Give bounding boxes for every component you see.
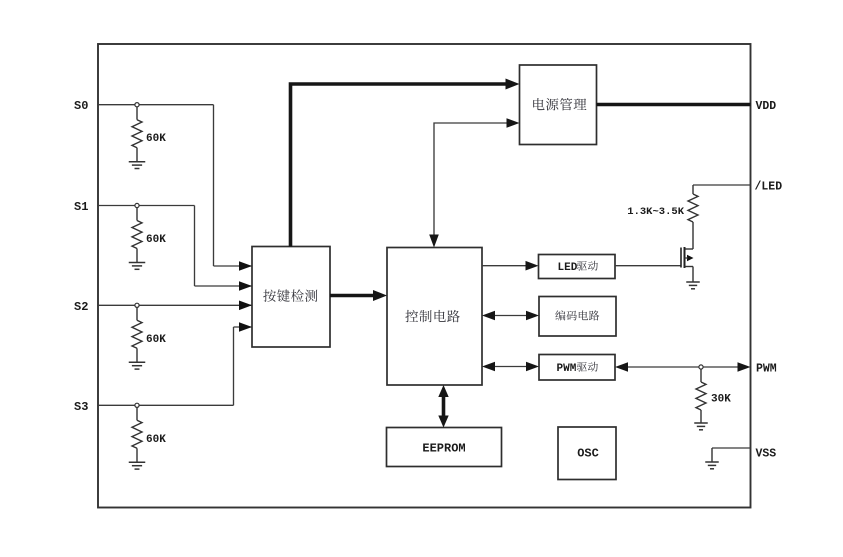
svg-text:PWM: PWM (756, 363, 777, 376)
svg-text:/LED: /LED (755, 181, 783, 194)
svg-text:S2: S2 (74, 300, 88, 314)
svg-text:60K: 60K (146, 434, 166, 446)
svg-text:S0: S0 (74, 99, 88, 113)
svg-text:30K: 30K (711, 394, 731, 406)
svg-text:60K: 60K (146, 133, 166, 145)
svg-text:60K: 60K (146, 334, 166, 346)
svg-text:PWM: PWM (557, 363, 577, 375)
svg-text:LED: LED (558, 262, 578, 274)
svg-text:VSS: VSS (756, 448, 777, 461)
svg-text:OSC: OSC (577, 447, 599, 461)
svg-text:1.3K~3.5K: 1.3K~3.5K (627, 206, 684, 218)
svg-text:VDD: VDD (756, 100, 777, 113)
svg-text:S1: S1 (74, 200, 88, 214)
svg-text:EEPROM: EEPROM (422, 442, 465, 456)
svg-text:60K: 60K (146, 234, 166, 246)
svg-text:S3: S3 (74, 400, 88, 414)
